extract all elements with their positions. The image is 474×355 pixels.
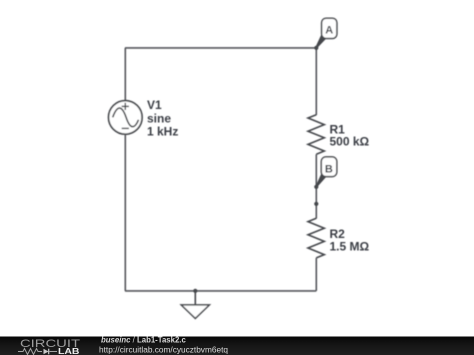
svg-text:V1: V1	[147, 98, 162, 112]
wire bottom horizontal	[125, 290, 316, 292]
label R2 value	[330, 227, 370, 253]
ground	[181, 291, 209, 319]
wire right vertical upper	[315, 48, 317, 115]
svg-text:1.5 MΩ: 1.5 MΩ	[330, 239, 370, 253]
wire left vertical upper	[124, 48, 126, 101]
junction dot wire joint below B	[314, 202, 318, 206]
svg-text:http://circuitlab.com/cyucztbv: http://circuitlab.com/cyucztbvm6etq	[99, 345, 228, 354]
voltage source V1	[109, 101, 143, 135]
svg-text:LAB: LAB	[58, 347, 80, 355]
svg-text:B: B	[325, 163, 333, 175]
label V1 value	[147, 98, 178, 139]
svg-text:A: A	[325, 24, 333, 36]
wire left vertical lower	[124, 134, 126, 291]
wire right vertical middle	[315, 154, 317, 218]
node B flag	[316, 157, 337, 187]
wire top horizontal	[125, 47, 316, 49]
junction dot at node A	[314, 46, 318, 50]
label R1 value	[330, 123, 370, 149]
node A flag	[316, 18, 337, 48]
svg-text:500 kΩ: 500 kΩ	[330, 135, 370, 149]
junction dot at node B	[314, 185, 318, 189]
CircuitLab logo	[18, 338, 80, 355]
wire right vertical lower	[315, 258, 317, 291]
resistor R2	[308, 218, 324, 258]
junction dot at ground	[193, 289, 197, 293]
footer bar	[0, 337, 474, 355]
footer title text	[99, 335, 228, 354]
svg-text:buseinc / Lab1-Task2.c: buseinc / Lab1-Task2.c	[101, 335, 186, 344]
svg-text:sine: sine	[147, 111, 171, 125]
svg-text:1 kHz: 1 kHz	[147, 125, 178, 139]
resistor R1	[308, 115, 324, 155]
